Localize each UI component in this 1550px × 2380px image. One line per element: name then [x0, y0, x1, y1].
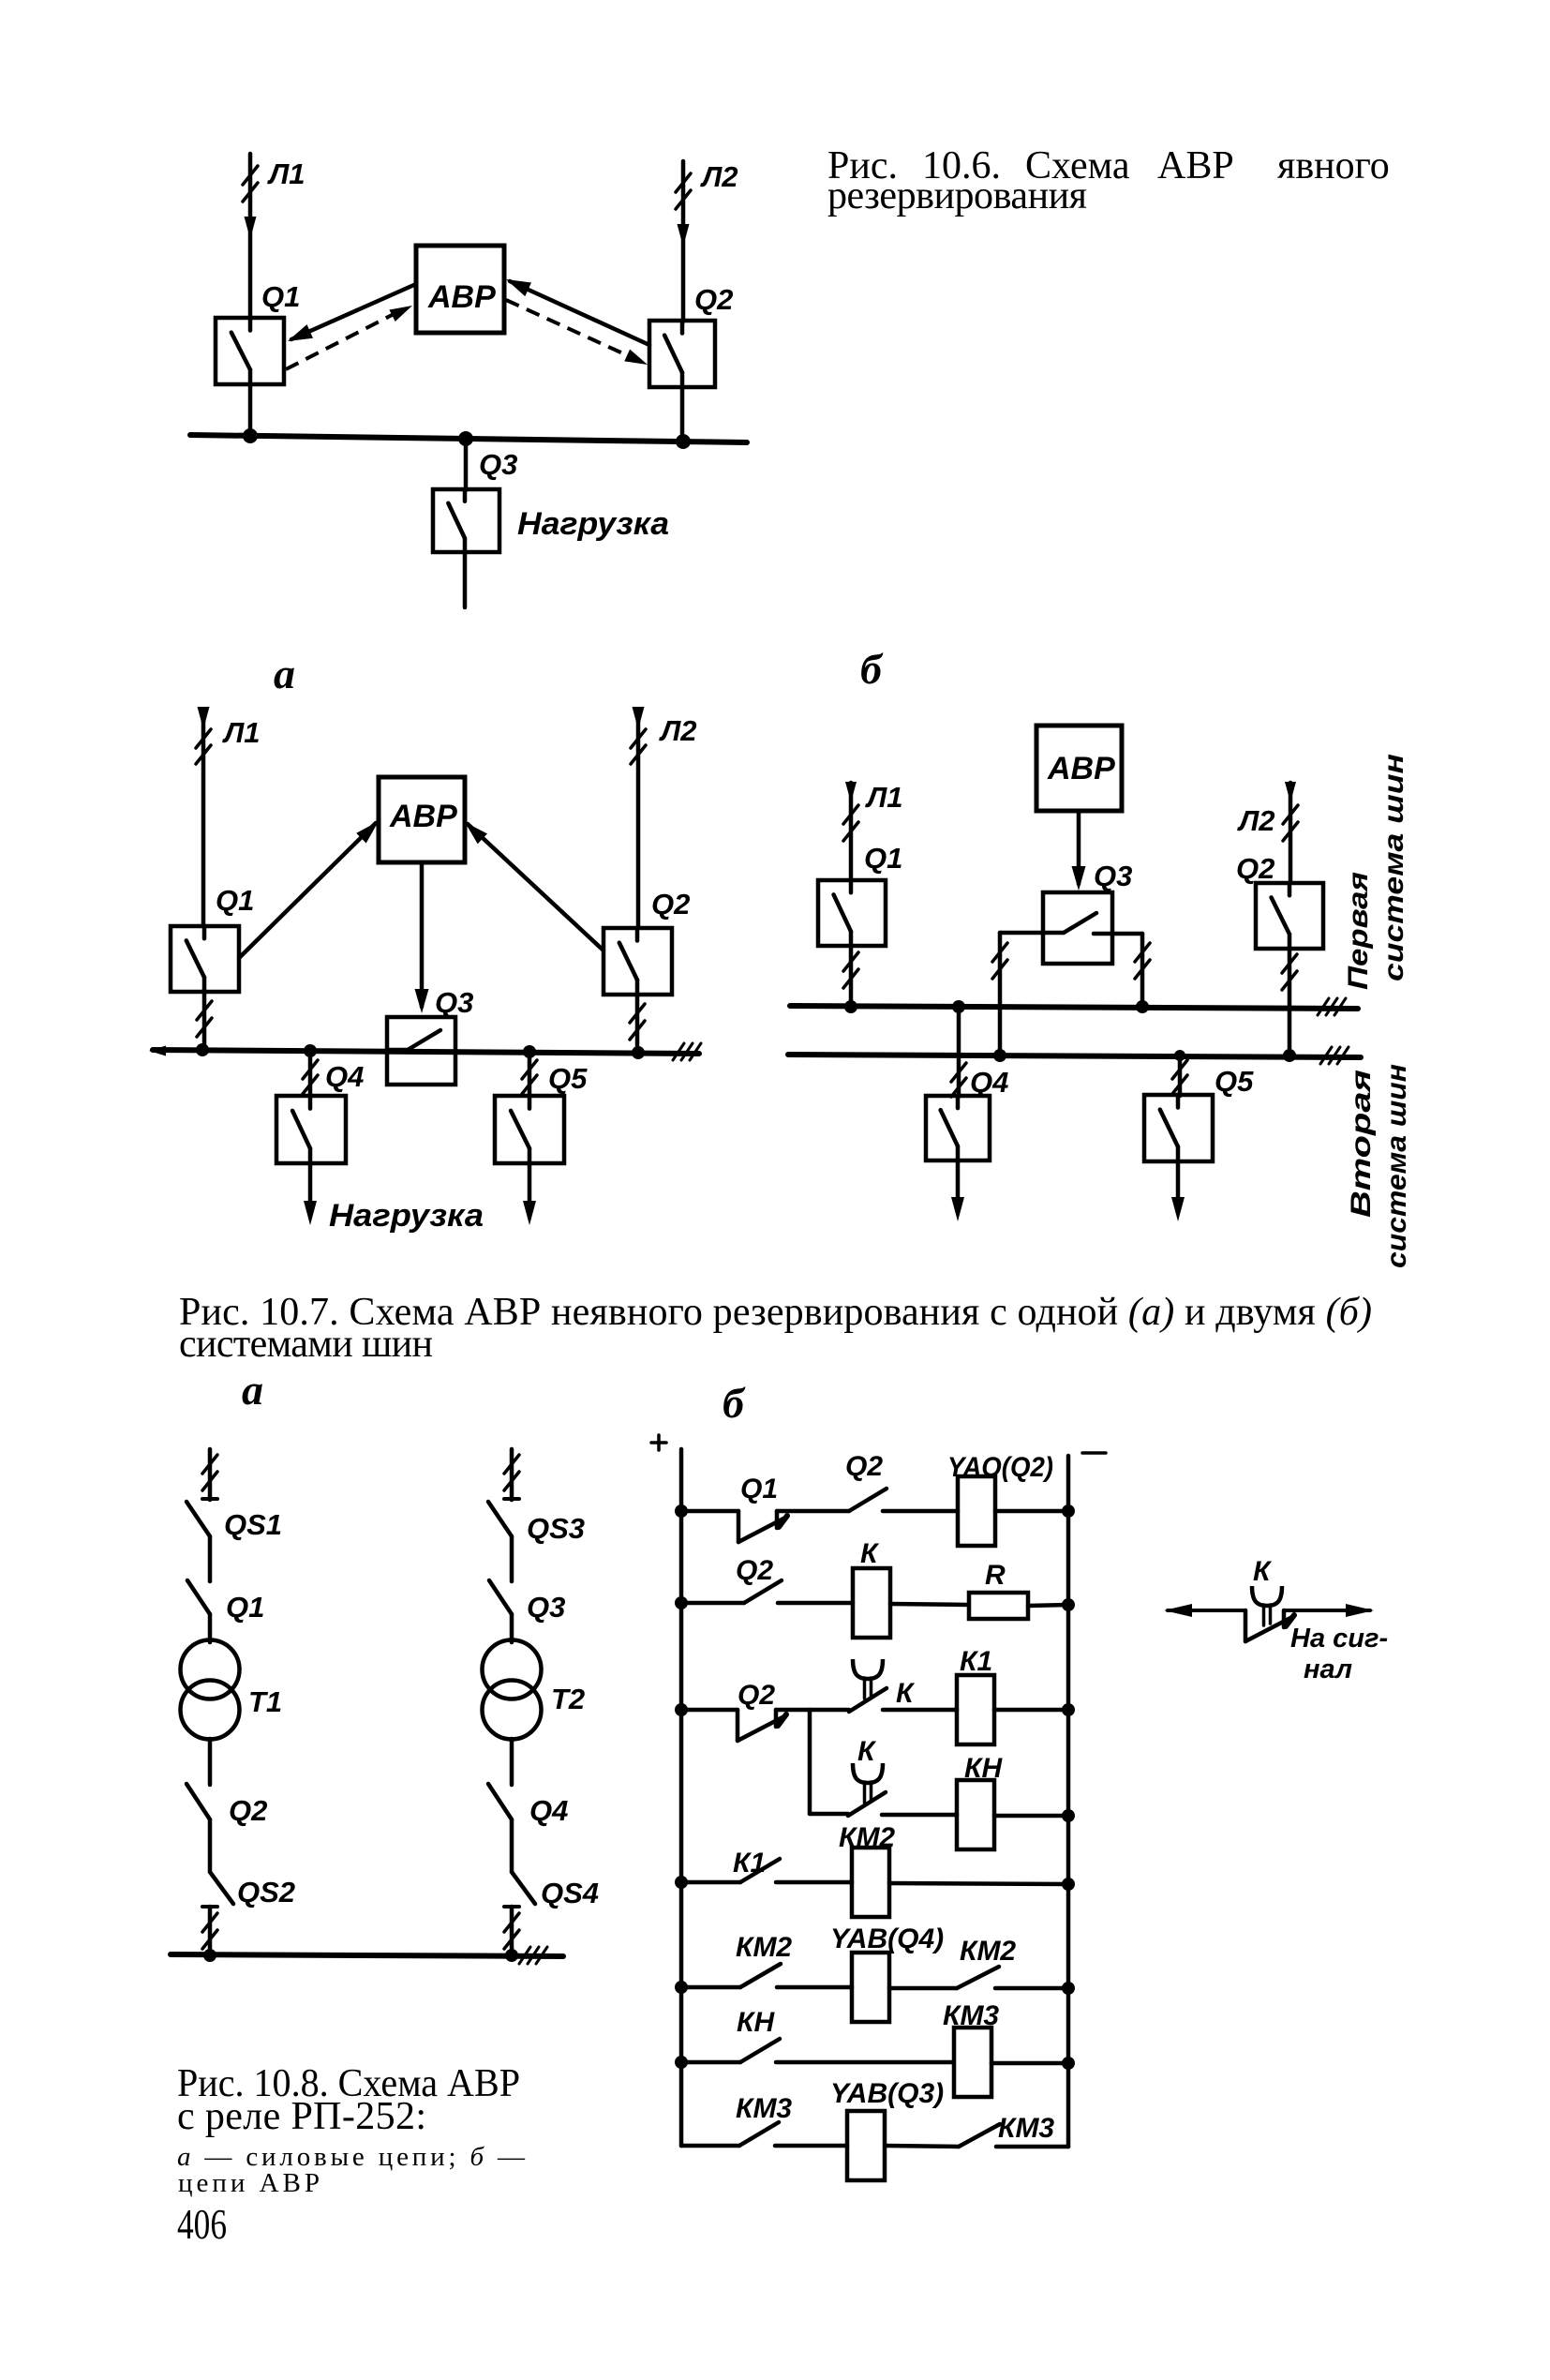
fig10.7a arrow Q1 to АВР [239, 821, 379, 958]
fig10.7b first bus bar [790, 998, 1358, 1015]
fig10.8b label R [985, 1560, 1006, 1591]
fig10.8b wire [1028, 1605, 1068, 1606]
fig10.8a feeder stub above QS3 [504, 1449, 519, 1500]
fig10.8b contact Q1 (NC) [738, 1511, 787, 1542]
svg-text:а: а [242, 1366, 263, 1414]
svg-text:б: б [723, 1379, 746, 1427]
fig10.6 arrow АВР to Q2 (dashed) [506, 300, 648, 365]
fig10.6 label Q2 [694, 283, 733, 316]
fig10.7b block АВР [1036, 726, 1122, 811]
fig10.7a breaker Q4 [276, 1096, 346, 1163]
fig10.6 label Нагрузка [517, 506, 669, 542]
fig10.7b wire bus to Q4 [951, 1000, 966, 1097]
fig10.8b contact КМ3 (NO) 2 [959, 2124, 1000, 2147]
svg-text:Q5: Q5 [548, 1062, 588, 1095]
fig10.8b contact КМ3 (NO) [739, 2122, 779, 2146]
svg-text:Q1: Q1 [864, 842, 902, 875]
fig10.7a label Q4 [325, 1060, 364, 1093]
svg-text:АВР: АВР [389, 799, 457, 834]
fig10.7a bus bar [149, 1043, 701, 1060]
fig10.8a label QS2 [237, 1876, 295, 1908]
fig10.8b label К [857, 1736, 877, 1767]
fig10.6 label Q1 [261, 280, 300, 313]
fig10.6 feeder line Л1 [243, 154, 258, 319]
fig10.7b feeder line Л1 [843, 782, 858, 880]
svg-text:КН: КН [737, 2007, 775, 2038]
fig10.8a label Q2 [229, 1794, 267, 1827]
fig10.7a section label а [274, 650, 295, 697]
fig10.8 caption line 2 [177, 2095, 426, 2138]
fig10.8b label К1 [960, 1646, 992, 1677]
fig10.8b coil КМ2 [852, 1848, 889, 1917]
fig10.7b bus label Первая система шин [1343, 754, 1409, 990]
fig10.6 feeder line Л2 [676, 161, 691, 322]
fig10.8a section label а [242, 1366, 263, 1414]
fig10.8b wire [775, 2144, 847, 2148]
fig10.6 node Q1-bus [243, 428, 258, 443]
fig10.8b wire [996, 2145, 1068, 2149]
fig10.8a breaker Q3 [489, 1580, 512, 1614]
svg-text:Л1: Л1 [865, 781, 903, 814]
svg-text:резервирования: резервирования [827, 174, 1087, 217]
fig10.6 node Q3-bus [458, 431, 473, 446]
svg-text:явного: явного [1277, 144, 1390, 187]
svg-text:Q2: Q2 [229, 1794, 267, 1827]
fig10.7b arrow АВР to Q3 [1072, 811, 1086, 891]
fig10.8a label Т1 [248, 1685, 282, 1718]
fig10.8b label К1 [733, 1848, 766, 1879]
fig10.8b plus terminal [651, 1435, 666, 1450]
fig10.7b wire bus to Q5 [1172, 1050, 1187, 1096]
svg-text:QS1: QS1 [224, 1508, 282, 1541]
svg-text:Q1: Q1 [226, 1591, 264, 1624]
fig10.7b label Q2 [1236, 852, 1274, 885]
svg-text:YAB(Q4): YAB(Q4) [830, 1923, 944, 1954]
fig10.7b node Q1-bus [844, 1000, 857, 1013]
svg-text:Q1: Q1 [261, 280, 300, 313]
fig10.8b label Q2 [845, 1451, 883, 1482]
fig10.8b label YAO(Q2) [947, 1452, 1053, 1483]
svg-text:КМ2: КМ2 [839, 1822, 895, 1853]
svg-text:система шин: система шин [1379, 754, 1409, 981]
fig10.8b label Q1 [740, 1474, 778, 1504]
fig10.8b label К [860, 1538, 880, 1569]
svg-text:АВР: АВР [1157, 144, 1234, 187]
fig10.7a wire Q2 to bus [630, 995, 645, 1053]
fig10.8b wire [776, 1880, 852, 1885]
fig10.8b contact К (NO, time delay) 2 [848, 1763, 886, 1816]
fig10.6 arrow Q1 to АВР (dashed) [286, 306, 412, 369]
fig10.8b label КН [964, 1753, 1003, 1784]
svg-text:К1: К1 [733, 1848, 766, 1879]
fig10.8b label КМ3 [943, 2000, 999, 2031]
fig10.8b branch wire to KH rung [808, 1710, 812, 1814]
fig10.8a breaker Q2 [186, 1784, 210, 1819]
svg-text:QS3: QS3 [527, 1512, 585, 1545]
svg-text:Q2: Q2 [736, 1555, 773, 1586]
fig10.7b label Q3 [1094, 860, 1132, 892]
fig10.8a label QS4 [541, 1877, 599, 1909]
svg-text:Q3: Q3 [527, 1591, 565, 1624]
fig10.7b wire Q2 to second bus [1282, 949, 1297, 1055]
fig10.8b contact КН (NO) [740, 2039, 780, 2062]
fig10.6 bus bar [190, 435, 747, 442]
svg-text:системами шин: системами шин [179, 1323, 433, 1366]
fig10.8a wire [510, 1536, 514, 1581]
fig10.7a label Q2 [651, 888, 690, 921]
fig10.8a label Q3 [527, 1591, 565, 1624]
fig10.7b wire Q1 to bus [843, 946, 858, 1007]
fig10.8a label QS1 [224, 1508, 282, 1541]
fig10.8a wire [208, 1614, 213, 1642]
svg-text:а — силовые цепи; б —: а — силовые цепи; б — [177, 2142, 526, 2172]
fig10.8b label К [896, 1678, 916, 1709]
svg-text:К1: К1 [960, 1646, 992, 1677]
svg-text:Q1: Q1 [740, 1474, 778, 1504]
fig10.8a node bus [203, 1949, 216, 1962]
fig10.8b node rung4 left [675, 1876, 688, 1889]
fig10.8b wire [777, 1509, 849, 1514]
fig10.8b wire [886, 2146, 959, 2147]
fig10.8a wire [510, 1739, 514, 1785]
fig10.6 label Л1 [267, 157, 306, 190]
fig10.6 breaker Q2 [649, 321, 715, 387]
fig10.8a label Т2 [551, 1683, 585, 1715]
fig10.8a disconnector QS3 [488, 1502, 512, 1536]
fig10.8b wire [889, 1986, 957, 1991]
fig10.8a transformer Т2 [483, 1640, 542, 1740]
fig10.8 caption line 1 [177, 2062, 520, 2105]
fig10.8a wire stub to bus [202, 1907, 217, 1955]
fig10.8b node rung2 right [1062, 1598, 1075, 1611]
fig10.8b label На сигнал [1290, 1624, 1388, 1684]
fig10.8b contact КМ2 (NO) 2 [957, 1967, 999, 1988]
svg-text:а: а [274, 650, 295, 697]
svg-text:Л1: Л1 [222, 716, 261, 749]
fig10.8b wire [991, 2061, 1068, 2066]
fig10.6 label Л2 [700, 160, 738, 193]
fig10.8a breaker Q1 [187, 1580, 210, 1614]
fig10.7a feeder line Л1 [196, 707, 211, 926]
fig10.8b contact К (NO, time delay) [849, 1659, 887, 1712]
fig10.8b contact КМ2 (NO) [740, 1964, 781, 1987]
fig10.8b wire [882, 1813, 957, 1818]
fig10.8b coil К1 [957, 1675, 994, 1744]
fig10.8b label YAB(Q4) [830, 1923, 944, 1954]
page number 406 [177, 2200, 227, 2248]
fig10.8b wire rung KH [810, 1812, 848, 1817]
fig10.7a label Q3 [435, 986, 473, 1019]
fig10.8 caption note line 1 [177, 2142, 526, 2172]
fig10.8b coil YAO(Q2) [958, 1476, 995, 1546]
fig10.8b node rung5 right [1062, 1982, 1075, 1995]
fig10.7a label Нагрузка [329, 1198, 484, 1234]
fig10.7 caption line 2 [179, 1323, 433, 1366]
fig10.8b resistor R [969, 1593, 1028, 1619]
svg-text:б: б [860, 645, 884, 693]
fig10.8b wire [776, 2060, 954, 2065]
svg-text:Л1: Л1 [267, 157, 306, 190]
svg-text:К: К [1253, 1556, 1273, 1587]
fig10.6 node Q2-bus [676, 434, 691, 449]
fig10.8b node rung6 left [675, 2056, 688, 2069]
fig10.8b signal arrow left [1164, 1604, 1245, 1617]
svg-text:АВР: АВР [427, 279, 496, 315]
fig10.6 wire bus to Q3 [464, 439, 469, 490]
fig10.8b node rung6 right [1062, 2057, 1075, 2070]
fig10.7a arrow АВР to Q3 [415, 862, 429, 1013]
fig10.7b bus label Вторая система шин [1346, 1064, 1412, 1268]
fig10.8b wire [883, 1509, 958, 1514]
fig10.6 caption line 2 [827, 174, 1087, 217]
svg-text:Нагрузка: Нагрузка [517, 506, 669, 542]
fig10.7b label Л1 [865, 781, 903, 814]
fig10.7a breaker Q5 [495, 1096, 564, 1163]
fig10.8b wire rung2 [681, 1601, 744, 1606]
fig10.8a transformer Т1 [181, 1640, 240, 1740]
svg-text:Q4: Q4 [529, 1794, 568, 1827]
fig10.8b label КМ2 [736, 1932, 792, 1963]
svg-text:Q2: Q2 [1236, 852, 1274, 885]
fig10.8a wire [208, 1739, 213, 1785]
svg-text:система шин: система шин [1381, 1064, 1412, 1268]
fig10.7a wire Q1 to bus [197, 992, 212, 1051]
fig10.8b wire [995, 1509, 1068, 1514]
svg-text:Q3: Q3 [479, 448, 517, 481]
fig10.8b wire [883, 1708, 957, 1713]
svg-text:Q3: Q3 [1094, 860, 1132, 892]
fig10.7a wire bus to Q5 [522, 1052, 537, 1097]
svg-text:Q2: Q2 [845, 1451, 883, 1482]
fig10.7a breaker Q2 [604, 928, 672, 995]
fig10.8a disconnector QS1 [186, 1502, 210, 1536]
fig10.8b wire [776, 1708, 849, 1713]
fig10.8b node rung5 left [675, 1981, 688, 1994]
fig10.8b wire [777, 1985, 852, 1990]
svg-text:YAB(Q3): YAB(Q3) [830, 2078, 944, 2109]
fig10.7b breaker Q4 [926, 1096, 990, 1160]
fig10.7a label Q5 [548, 1062, 588, 1095]
fig10.6 breaker Q1 [216, 318, 284, 384]
fig10.8b section label б [723, 1379, 746, 1427]
fig10.7b feeder line Л2 [1283, 782, 1298, 883]
fig10.7b tie breaker Q3 [1043, 892, 1112, 964]
fig10.7a node Q5-bus [523, 1045, 536, 1058]
fig10.7a arrow Q2 to АВР [465, 822, 604, 951]
svg-text:QS2: QS2 [237, 1876, 295, 1908]
fig10.8b wire [994, 1814, 1068, 1819]
svg-text:КМ2: КМ2 [960, 1936, 1016, 1967]
fig10.7a block АВР [379, 777, 465, 862]
svg-text:КМ3: КМ3 [943, 2000, 999, 2031]
fig10.8b wire [995, 1986, 1068, 1991]
fig10.8a wire [510, 1614, 514, 1642]
svg-text:Q4: Q4 [325, 1060, 364, 1093]
fig10.7b breaker Q1 [818, 880, 886, 946]
fig10.7a label Q1 [216, 884, 254, 917]
fig10.7a label Л1 [222, 716, 261, 749]
svg-text:Л2: Л2 [700, 160, 738, 193]
fig10.8b label Q2 [736, 1555, 773, 1586]
fig10.8a feeder stub above QS1 [202, 1449, 217, 1500]
fig10.8b coil КН [957, 1780, 994, 1849]
fig10.7b load arrow Q5 [1171, 1161, 1185, 1221]
fig10.8b label КМ2 [839, 1822, 895, 1853]
fig10.8b minus terminal [1082, 1451, 1106, 1455]
fig10.8b wire rung4 [681, 1880, 740, 1885]
svg-text:Q2: Q2 [694, 283, 733, 316]
fig10.8a label Q4 [529, 1794, 568, 1827]
svg-text:Первая: Первая [1343, 872, 1374, 990]
fig10.8a wire stub to bus [504, 1907, 519, 1955]
fig10.8a bus bar [171, 1947, 563, 1964]
fig10.7b label Л2 [1237, 804, 1275, 837]
fig10.8b node rung KH right [1062, 1809, 1075, 1822]
fig10.8b label КМ2 [960, 1936, 1016, 1967]
fig10.7b label Q1 [864, 842, 902, 875]
fig10.7b wire Q3 left leg to second bus [992, 933, 1043, 1055]
fig10.7a feeder line Л2 [631, 707, 646, 928]
svg-text:QS4: QS4 [541, 1877, 599, 1909]
fig10.6 label Q3 [479, 448, 517, 481]
fig10.6 wire Q2 to bus [680, 387, 685, 442]
fig10.6 wire Q3 to load [463, 552, 468, 607]
fig10.7b label Q4 [970, 1066, 1008, 1099]
fig10.8b node rung1 left [675, 1504, 688, 1518]
fig10.7b load arrow Q4 [951, 1160, 964, 1221]
fig10.7a node Q1-bus [196, 1043, 209, 1056]
svg-text:К: К [860, 1538, 880, 1569]
fig10.8b wire rung5 [681, 1985, 740, 1990]
svg-text:На сиг-: На сиг- [1290, 1624, 1388, 1654]
svg-text:Нагрузка: Нагрузка [329, 1198, 484, 1234]
fig10.7b node Q3 right leg [1136, 1000, 1149, 1013]
fig10.8b contact Q2 (NO) [744, 1580, 782, 1603]
svg-text:R: R [985, 1560, 1006, 1591]
svg-text:Q2: Q2 [651, 888, 690, 921]
fig10.8b node rung3 left [675, 1703, 688, 1716]
svg-text:Q3: Q3 [435, 986, 473, 1019]
svg-text:КН: КН [964, 1753, 1003, 1784]
svg-text:Q2: Q2 [738, 1680, 775, 1711]
fig10.8b signal arrow right [1284, 1604, 1374, 1617]
fig10.8b wire [778, 1601, 853, 1606]
fig10.7a node Q4-bus [304, 1044, 317, 1057]
svg-text:КМ3: КМ3 [736, 2093, 792, 2124]
fig10.8b right rail (-) [1066, 1456, 1071, 2147]
fig10.8b label Q2 [738, 1680, 775, 1711]
fig10.7a label Л2 [659, 714, 697, 747]
fig10.8b left rail (+) [679, 1449, 684, 2146]
svg-text:406: 406 [177, 2200, 227, 2248]
fig10.8b relay coil К [853, 1568, 890, 1638]
svg-text:нал: нал [1304, 1654, 1352, 1684]
fig10.7b second bus bar [788, 1047, 1361, 1064]
fig10.8a label QS3 [527, 1512, 585, 1545]
fig10.7a node Q2-bus [632, 1046, 645, 1059]
fig10.6 arrow Q2 to АВР (solid) [506, 279, 649, 345]
svg-text:с реле РП-252:: с реле РП-252: [177, 2095, 426, 2138]
fig10.7 caption line 1 [179, 1291, 1372, 1334]
fig10.8a disconnector QS2 [202, 1872, 233, 1907]
fig10.8b node rung4 right [1062, 1878, 1075, 1891]
fig10.8b label YAB(Q3) [830, 2078, 944, 2109]
fig10.8b contact К (NC, time delay, signal) [1245, 1586, 1294, 1641]
svg-text:Л2: Л2 [1237, 804, 1275, 837]
fig10.8a wire [208, 1536, 213, 1581]
fig10.6 caption line 1 [827, 144, 1390, 187]
svg-text:Т2: Т2 [551, 1683, 585, 1715]
fig10.8a wire [208, 1819, 213, 1872]
fig10.8b label КМ3 [736, 2093, 792, 2124]
fig10.8b contact К1 (NO) [740, 1859, 780, 1882]
fig10.7a load arrow Q5 [523, 1163, 536, 1225]
fig10.8b wire [890, 1604, 969, 1605]
fig10.8 caption note line 2 [178, 2168, 320, 2198]
fig10.8b wire rung6 [681, 2060, 740, 2065]
fig10.8b label К [1253, 1556, 1273, 1587]
fig10.8a label Q1 [226, 1591, 264, 1624]
fig10.7a tie breaker Q3 [387, 1017, 455, 1085]
fig10.8b node rung2 left [675, 1596, 688, 1609]
fig10.7a load arrow Q4 [304, 1163, 317, 1225]
fig10.8b wire rung3 [681, 1708, 738, 1713]
svg-text:КМ3: КМ3 [998, 2113, 1054, 2144]
fig10.7a breaker Q1 [171, 926, 239, 992]
fig10.6 arrow АВР to Q1 (solid) [288, 284, 416, 341]
fig10.8a node bus [505, 1949, 518, 1962]
fig10.8a wire [510, 1819, 514, 1872]
fig10.8b coil YAB(Q4) [852, 1953, 889, 2022]
fig10.8b wire rung1 [681, 1509, 738, 1514]
fig10.6 wire Q1 to bus [248, 384, 253, 437]
svg-text:К: К [857, 1736, 877, 1767]
fig10.8b node rung3 right [1062, 1703, 1075, 1716]
fig10.8b wire [994, 1708, 1068, 1713]
fig10.8b node rung1 right [1062, 1504, 1075, 1518]
fig10.7b node Q3 left leg [993, 1049, 1006, 1062]
fig10.8b contact Q2 (NC) [738, 1710, 786, 1741]
fig10.8b coil КМ3 [954, 2028, 991, 2097]
svg-text:К: К [896, 1678, 916, 1709]
fig10.7b node Q2-bus [1283, 1049, 1296, 1062]
svg-text:АВР: АВР [1047, 751, 1115, 786]
svg-text:Л2: Л2 [659, 714, 697, 747]
fig10.8b wire [889, 1883, 1068, 1884]
fig10.8a breaker Q4 [488, 1784, 512, 1819]
fig10.8b label КН [737, 2007, 775, 2038]
svg-text:YAO(Q2): YAO(Q2) [947, 1452, 1053, 1483]
fig10.8b contact Q2 (NO) [849, 1489, 887, 1511]
svg-text:Q5: Q5 [1215, 1065, 1254, 1098]
fig10.8b wire rung7 [681, 2144, 739, 2148]
fig10.8a disconnector QS4 [504, 1872, 535, 1907]
fig10.7b breaker Q2 [1256, 883, 1323, 949]
svg-text:Т1: Т1 [248, 1685, 282, 1718]
svg-text:Вторая: Вторая [1346, 1070, 1377, 1218]
svg-text:цепи АВР: цепи АВР [178, 2168, 320, 2198]
fig10.7b label Q5 [1215, 1065, 1254, 1098]
svg-text:КМ2: КМ2 [736, 1932, 792, 1963]
fig10.6 block АВР [416, 246, 504, 333]
fig10.7b breaker Q5 [1144, 1095, 1213, 1161]
fig10.8b coil YAB(Q3) [847, 2111, 885, 2180]
fig10.8b label КМ3 [998, 2113, 1054, 2144]
svg-text:Q1: Q1 [216, 884, 254, 917]
fig10.7b section label б [860, 645, 884, 693]
fig10.6 breaker Q3 [433, 489, 499, 552]
fig10.7a wire bus to Q4 [303, 1051, 318, 1097]
